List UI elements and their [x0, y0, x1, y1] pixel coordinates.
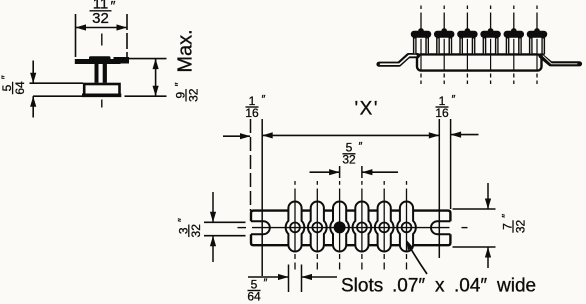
- svg-text:32: 32: [186, 88, 200, 102]
- side view: terminal 4 posts: [483, 37, 487, 54]
- plan view: terminal 3 centre hole: [334, 221, 346, 233]
- svg-text:″: ″: [264, 277, 268, 289]
- side view: terminal 3 center line: [466, 6, 468, 10]
- plan view: terminal 1 vertical center line: [294, 202, 296, 252]
- svg-text:32: 32: [513, 220, 527, 234]
- plan view: 3/32 dimension (slot width, left): [204, 221, 246, 223]
- section view: terminal tag bar: [75, 59, 121, 64]
- plan view: terminal 4 vertical center line: [361, 202, 363, 252]
- plan view: terminal 4 slot outline: [353, 201, 372, 251]
- section view: vertical center line: [101, 34, 103, 46]
- section view: 9/32 dimension line: [155, 59, 157, 97]
- svg-text:32: 32: [92, 10, 109, 27]
- svg-text:' X ': ' X ': [354, 99, 377, 120]
- section view: 5/64 label (rotated): [0, 75, 27, 94]
- svg-text:16: 16: [245, 106, 259, 120]
- svg-text:Slots.07″x.04″wide: Slots.07″x.04″wide: [341, 276, 536, 297]
- side view: terminal 1 posts: [413, 37, 417, 54]
- plan view: left 1/16 outside arrow: [223, 135, 250, 137]
- plan view: terminal 1 centre hole: [290, 223, 300, 233]
- side view: terminal 6 center line: [536, 6, 538, 10]
- plan view: terminal 6 vertical center line: [406, 202, 408, 252]
- side view: terminal 1 cap: [411, 31, 431, 38]
- plan view: terminal 3 vertical center line: [339, 202, 341, 252]
- plan view: terminal 5 slot outline: [375, 202, 394, 252]
- plan view: horizontal center line: [238, 227, 247, 229]
- side view: terminal 3 posts: [459, 37, 463, 54]
- plan view: terminal 6 slot outline: [397, 201, 416, 251]
- plan view: 7/32 label (rotated): [501, 214, 528, 233]
- side view: terminal 6 cap: [527, 31, 547, 38]
- section view: Max. label (rotated): [175, 29, 197, 72]
- svg-text:″: ″: [111, 0, 116, 14]
- plan view: right 1/16 outside arrow: [451, 134, 479, 136]
- section view: right extension line: [126, 14, 128, 57]
- plan view: 3/32 label (rotated): [176, 218, 203, 237]
- svg-text:″: ″: [359, 140, 363, 152]
- svg-text:64: 64: [13, 81, 27, 95]
- plan view: 5/32 label: [342, 140, 362, 166]
- side view: terminal 4 center line: [490, 6, 492, 10]
- plan view: right fixing slot: [431, 221, 450, 234]
- svg-text:64: 64: [247, 289, 261, 303]
- side view: terminal 4 cap: [480, 31, 500, 38]
- section view: strip plate bottom edge: [33, 95, 83, 97]
- svg-text:″: ″: [501, 214, 513, 218]
- plan view: terminal 2 centre hole: [312, 223, 322, 233]
- plan view: terminal 5 centre hole: [379, 223, 389, 233]
- plan view: terminal 2 vertical center line: [316, 202, 318, 252]
- section view: strip plate top edge: [30, 82, 84, 84]
- plan view: 7/32 dimension (body width, right): [453, 208, 496, 210]
- svg-text:Max.: Max.: [175, 29, 197, 72]
- section view: right extension lines for 9/32: [129, 58, 167, 60]
- plan view: terminal 3 slot outline: [330, 201, 349, 251]
- side view: terminal 2 center line: [443, 6, 445, 10]
- side view: terminal 5 center line: [513, 6, 515, 10]
- plan view: strip body outline: [251, 211, 450, 246]
- plan view: top dimension extension lines: [250, 119, 252, 211]
- plan view: leader arrow to slot 6: [408, 243, 428, 274]
- svg-text:″: ″: [452, 94, 456, 106]
- svg-text:″: ″: [262, 94, 266, 106]
- plan view: terminal 5 vertical center line: [383, 202, 385, 252]
- plan view: left fixing slot: [251, 221, 270, 234]
- plan view: bottom 5/64 dimension: [288, 265, 290, 293]
- side view: terminal 2 cap: [434, 31, 454, 38]
- plan view: left 1/16 label: [245, 94, 265, 120]
- section view: moulded base block: [84, 84, 119, 95]
- section view: 11/32 dimension label: [90, 0, 116, 27]
- svg-text:″: ″: [176, 218, 188, 222]
- plan view: X dimension line: [262, 134, 439, 136]
- plan view: bottom 5/64 label: [247, 277, 267, 303]
- side view: terminal 6 posts: [529, 37, 533, 54]
- plan view: terminal 4 centre hole: [357, 223, 367, 233]
- plan view: right 1/16 label: [435, 94, 455, 120]
- svg-text:32: 32: [342, 153, 356, 167]
- plan view: terminal 2 slot outline: [308, 202, 327, 252]
- side view: moulded strip body: [417, 54, 542, 70]
- side view: terminal 3 cap: [457, 31, 477, 38]
- section view: terminal stem: [95, 64, 99, 83]
- side view: right mounting foot: [541, 56, 580, 64]
- section view: left extension line: [75, 14, 77, 57]
- section view: 11/32 dimension line with arrows: [76, 27, 128, 29]
- side view: terminal 5 cap: [504, 31, 524, 38]
- plan view: 5/32 dimension: [339, 166, 341, 178]
- svg-text:16: 16: [435, 106, 449, 120]
- section view: 9/32 label (rotated): [174, 82, 201, 101]
- svg-text:32: 32: [189, 224, 203, 238]
- plan view: terminal 1 slot outline: [286, 201, 305, 251]
- svg-text:″: ″: [0, 75, 12, 79]
- side view: left mounting foot: [379, 56, 418, 65]
- side view: terminal 2 posts: [436, 37, 440, 54]
- side view: terminal 5 posts: [506, 37, 510, 54]
- svg-text:″: ″: [174, 82, 186, 86]
- plan view: terminal 6 centre hole: [402, 223, 412, 233]
- section view: 5/64 dimension (plate thickness): [32, 61, 34, 84]
- side view: terminal 1 center line: [420, 6, 422, 10]
